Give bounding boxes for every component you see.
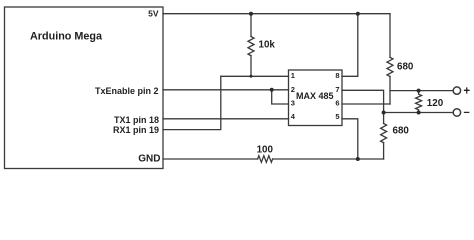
svg-text:GND: GND: [138, 154, 160, 165]
wire GND row left: [163, 158, 258, 160]
wire TX1 row to pin4: [163, 118, 289, 120]
svg-text:5: 5: [335, 112, 339, 121]
node junction 10k top: [249, 12, 253, 16]
node junction 10k bottom: [250, 75, 253, 78]
Arduino Mega box: [5, 7, 164, 169]
wire plus row: [390, 90, 454, 92]
svg-text:120: 120: [427, 98, 444, 109]
wire 680 top bottom lead to A node: [389, 76, 391, 104]
wire 5V row: [163, 13, 390, 15]
wire 10k top lead: [250, 14, 252, 37]
svg-text:TxEnable pin 2: TxEnable pin 2: [95, 86, 159, 96]
node junction RE-DE: [270, 88, 274, 92]
svg-text:8: 8: [335, 71, 339, 80]
resistor R2 680 top zigzag: [387, 57, 393, 76]
svg-text:7: 7: [335, 85, 339, 94]
wire pin6 A row: [342, 103, 390, 105]
svg-text:−: −: [463, 107, 469, 119]
terminal minus circle: [453, 109, 460, 116]
svg-text:1: 1: [291, 71, 295, 80]
svg-text:680: 680: [393, 126, 410, 137]
svg-text:680: 680: [397, 62, 414, 73]
wire RX1 jog: [163, 76, 221, 129]
wire GND row right: [273, 158, 384, 160]
wire pin1 row RO: [221, 75, 289, 77]
svg-text:100: 100: [257, 145, 274, 156]
wire 10k bottom lead: [250, 56, 252, 77]
wire 680 top lead from 5V: [389, 14, 391, 58]
svg-text:3: 3: [291, 98, 295, 107]
resistor R5 100 zigzag: [258, 156, 273, 163]
wire pin8 VCC: [342, 14, 358, 77]
wire RE-DE tie to pin3: [272, 90, 289, 104]
svg-text:MAX 485: MAX 485: [296, 91, 334, 101]
resistor R1 10k zigzag: [248, 37, 254, 56]
wire 680 bottom top lead: [383, 113, 385, 124]
wire TxEnable row to pin2: [163, 89, 289, 91]
svg-text:5V: 5V: [148, 9, 159, 19]
resistor R4 120 termination: [416, 91, 422, 113]
svg-text:Arduino Mega: Arduino Mega: [30, 30, 103, 42]
svg-text:2: 2: [291, 85, 295, 94]
wire minus row: [384, 112, 454, 114]
wire pin7 B to minus row: [342, 90, 384, 112]
wire 680 bottom lead to GND row: [383, 143, 385, 160]
resistor R3 680 bottom zigzag: [381, 124, 387, 143]
terminal plus circle: [453, 87, 460, 94]
op-amp U1 MAX 485 IC box: [289, 70, 343, 126]
wire pin5 GND: [342, 119, 358, 159]
svg-text:RX1 pin 19: RX1 pin 19: [113, 125, 159, 135]
node junction 120 top: [417, 89, 421, 93]
svg-text:+: +: [463, 85, 470, 97]
svg-text:10k: 10k: [259, 40, 276, 51]
node junction pin8 top: [356, 12, 360, 16]
svg-text:6: 6: [335, 98, 339, 107]
node junction B minus: [382, 111, 386, 115]
svg-text:TX1 pin 18: TX1 pin 18: [114, 115, 159, 125]
node junction 120 bottom: [417, 111, 421, 115]
node junction pin5 gnd: [356, 157, 360, 161]
